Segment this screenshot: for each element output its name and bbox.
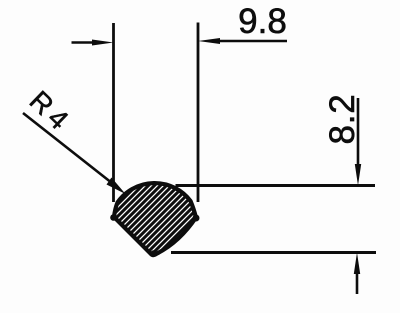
svg-text:9.8: 9.8 xyxy=(238,2,287,41)
svg-text:8.2: 8.2 xyxy=(323,93,362,144)
